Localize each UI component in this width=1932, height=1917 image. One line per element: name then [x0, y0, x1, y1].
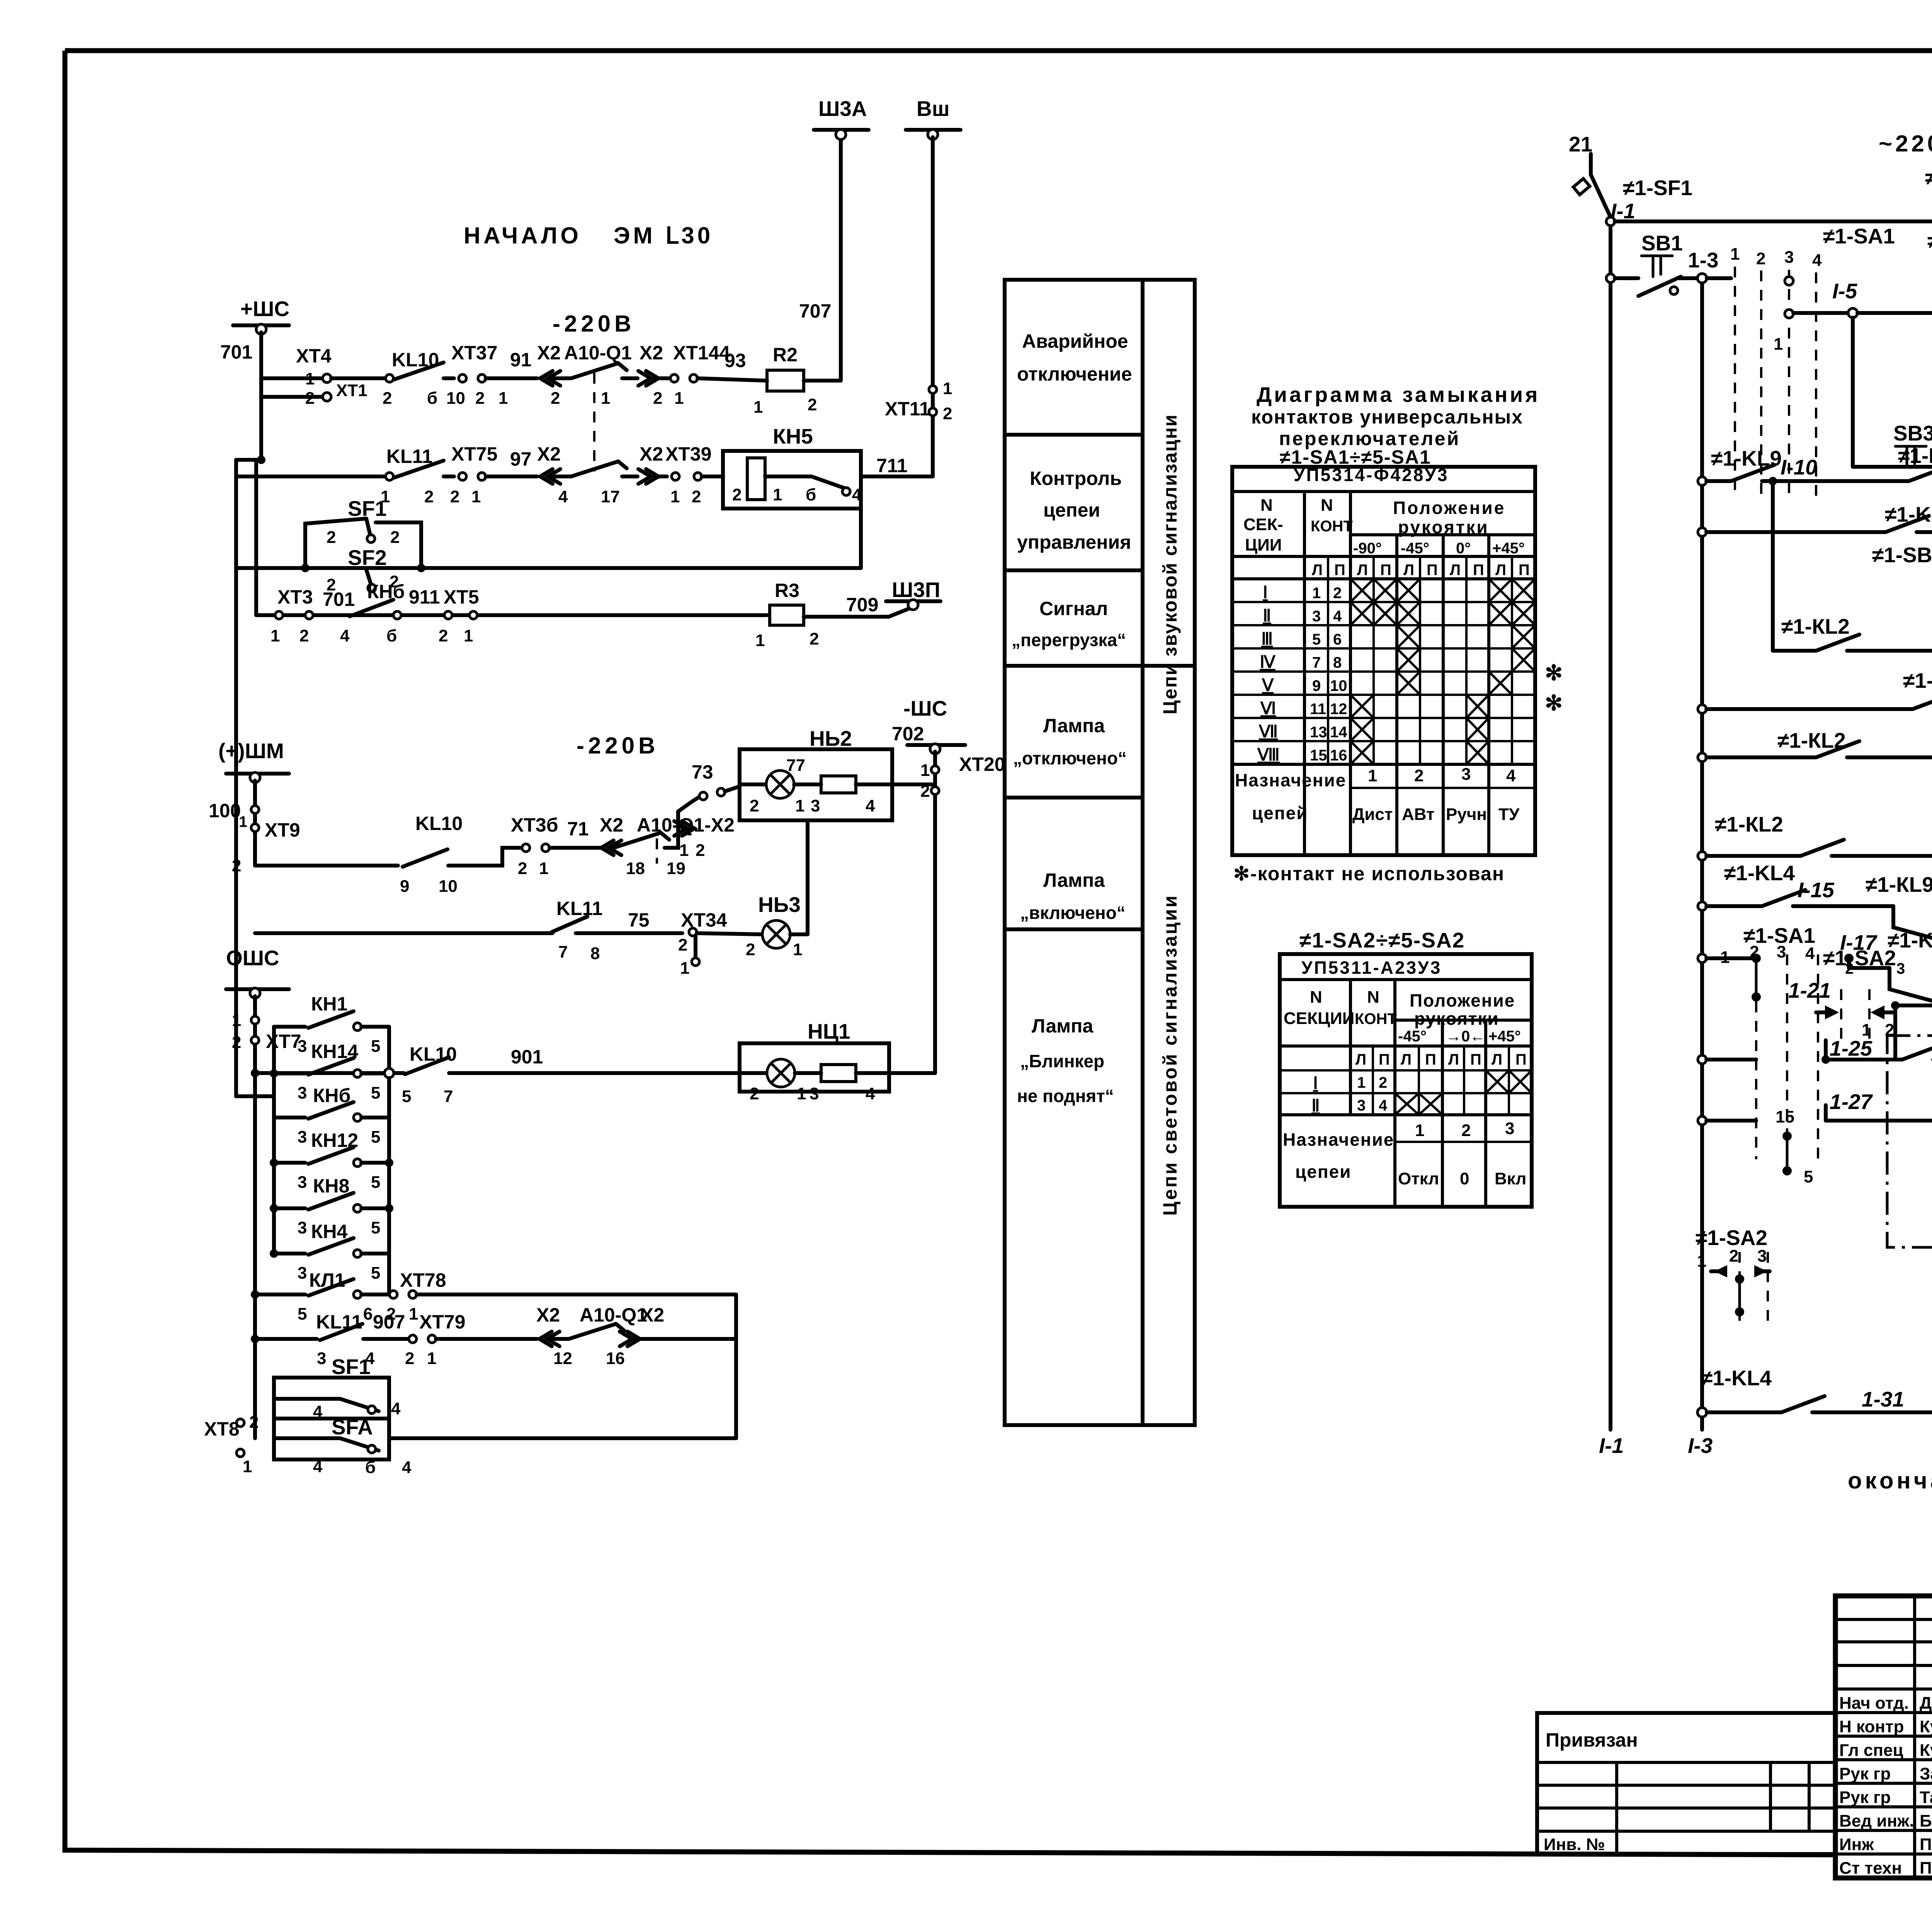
contact ≠1-КЛ4 ≠1-КЛ3 bottom rung — [1697, 1365, 1932, 1417]
svg-text:≠1-КL2: ≠1-КL2 — [1781, 614, 1850, 638]
svg-text:≠1-KL4: ≠1-KL4 — [1701, 1366, 1772, 1390]
svg-text:2: 2 — [232, 856, 241, 875]
contact ≠1-KL2 rung3 — [1698, 728, 1932, 762]
svg-text:21: 21 — [1569, 132, 1592, 156]
svg-text:1: 1 — [670, 487, 680, 506]
svg-text:3: 3 — [1312, 608, 1321, 625]
svg-text:отключение: отключение — [1017, 363, 1132, 385]
svg-text:ЦИИ: ЦИИ — [1245, 536, 1282, 555]
lamp НЬ3 — [746, 893, 808, 959]
contact КН4 — [270, 1221, 389, 1283]
svg-text:2: 2 — [1756, 249, 1765, 268]
svg-text:SB3: SB3 — [1893, 421, 1932, 445]
svg-text:1: 1 — [753, 398, 763, 417]
svg-text:1-25: 1-25 — [1830, 1036, 1872, 1060]
wire rail x663 — [254, 460, 258, 615]
svg-text:3: 3 — [298, 1264, 307, 1283]
svg-text:→0←: →0← — [1446, 1028, 1485, 1045]
svg-text:1: 1 — [239, 813, 247, 830]
svg-text:1: 1 — [680, 959, 689, 978]
legend Лампа Блинкер не поднят — [1017, 1015, 1114, 1106]
table1 row labels — [1257, 583, 1347, 764]
svg-text:ХТ144: ХТ144 — [673, 342, 730, 364]
relay coil ≠1-КЫ1 rung — [1606, 165, 1932, 246]
svg-text:Н контр: Н контр — [1839, 1717, 1904, 1736]
contact ≠1-KL2 I-13 rung — [1698, 812, 1932, 861]
svg-text:1: 1 — [793, 940, 802, 959]
svg-text:5: 5 — [371, 1173, 380, 1192]
svg-text:Ⅴ: Ⅴ — [1262, 676, 1274, 695]
legend Лампа отключено — [1013, 715, 1127, 768]
wire ВШ down — [931, 137, 935, 476]
svg-text:≠1-KL4: ≠1-KL4 — [1903, 668, 1932, 692]
contact КЛ1 row — [251, 1269, 389, 1323]
svg-text:б: б — [386, 626, 397, 645]
svg-text:2: 2 — [405, 1349, 414, 1368]
contact ≠1-KL4 SB4 I-11 YAA2 rung — [1698, 502, 1932, 616]
svg-text:2: 2 — [810, 629, 819, 648]
svg-text:✻-контакт не использован: ✻-контакт не использован — [1233, 863, 1505, 885]
resistor R3 — [755, 580, 889, 650]
svg-text:2: 2 — [678, 936, 687, 954]
svg-text:≠1-SA1: ≠1-SA1 — [1823, 224, 1895, 248]
svg-text:Ⅳ: Ⅳ — [1260, 653, 1276, 672]
node -ШС bus — [892, 696, 965, 754]
svg-text:6: 6 — [1333, 631, 1342, 648]
svg-text:709: 709 — [846, 594, 878, 616]
svg-text:1: 1 — [1415, 1121, 1424, 1140]
svg-text:ОШС: ОШС — [226, 946, 279, 970]
svg-text:б: б — [427, 389, 437, 408]
contact КН6 — [274, 1085, 389, 1146]
svg-text:11: 11 — [1310, 701, 1326, 718]
wire ladder right rail — [387, 1027, 391, 1294]
svg-text:701: 701 — [323, 589, 355, 610]
table1 bottom Назначение — [1235, 765, 1520, 824]
svg-text:Лампа: Лампа — [1032, 1015, 1094, 1037]
pushbutton SB3 rung — [1853, 318, 1932, 471]
table2 headers — [1284, 958, 1527, 1068]
svg-text:≠1-КЫ1: ≠1-КЫ1 — [1925, 165, 1932, 189]
svg-text:2: 2 — [920, 782, 930, 801]
wire ladder left rail — [272, 1027, 276, 1254]
breaker SF2 on main wire — [236, 509, 861, 594]
svg-text:КН8: КН8 — [313, 1175, 349, 1197]
svg-text:15: 15 — [1310, 747, 1327, 764]
connector X2 / A10-Q1-X2 lower — [600, 797, 735, 878]
contact ≠1-KL2 rung2 — [1773, 481, 1932, 651]
svg-text:+45°: +45° — [1488, 1028, 1521, 1045]
svg-text:0°: 0° — [1456, 540, 1471, 557]
svg-text:ХТ3б: ХТ3б — [511, 814, 558, 836]
svg-text:5: 5 — [371, 1128, 380, 1146]
node ОШС bus — [226, 946, 289, 998]
svg-text:УП5311-А23У3: УП5311-А23У3 — [1301, 958, 1442, 978]
contact ≠1-KL9 I-10 rung — [1698, 444, 1932, 485]
svg-text:2: 2 — [518, 859, 527, 878]
contact КН6 row3 — [340, 581, 440, 645]
svg-text:I-5: I-5 — [1832, 279, 1858, 303]
svg-text:„включено“: „включено“ — [1020, 903, 1126, 923]
svg-text:≠1-КL2: ≠1-КL2 — [1715, 812, 1783, 836]
svg-text:X2: X2 — [639, 443, 663, 465]
svg-text:N: N — [1310, 988, 1322, 1007]
svg-text:П: П — [1470, 1051, 1481, 1068]
svg-text:ХТ3: ХТ3 — [277, 586, 313, 608]
svg-text:3: 3 — [1461, 765, 1471, 784]
table2 rows — [1311, 1074, 1388, 1115]
svg-text:3: 3 — [298, 1173, 307, 1192]
contact ≠1-КЛ3 I-17 I-19 rung — [1840, 925, 1932, 1005]
svg-text:рукоятки: рукоятки — [1398, 517, 1489, 537]
svg-text:≠1-SF1: ≠1-SF1 — [1623, 176, 1692, 200]
svg-text:не поднят“: не поднят“ — [1017, 1086, 1114, 1106]
svg-text:5: 5 — [371, 1218, 380, 1237]
svg-text:2: 2 — [732, 485, 742, 504]
svg-text:X2: X2 — [537, 342, 561, 364]
svg-text:I-1: I-1 — [1599, 1434, 1624, 1458]
svg-text:Долотов: Долотов — [1920, 1694, 1932, 1713]
svg-text:Ручн: Ручн — [1446, 805, 1487, 824]
svg-text:окончание , ЭМ Ⅼ32: окончание , ЭМ Ⅼ32 — [1848, 1468, 1932, 1493]
terminal XT37 — [446, 342, 537, 408]
svg-text:+45°: +45° — [1492, 540, 1525, 557]
svg-text:10: 10 — [446, 389, 465, 408]
svg-text:707: 707 — [799, 300, 831, 322]
switch ≠1-SA1 lower block — [1698, 924, 1854, 1186]
svg-text:2: 2 — [750, 796, 759, 815]
svg-text:ХТ5: ХТ5 — [444, 586, 479, 608]
svg-text:7: 7 — [558, 942, 568, 961]
node (+)ШМ bus — [218, 739, 289, 782]
svg-text:Гл спец: Гл спец — [1839, 1741, 1903, 1760]
svg-text:3: 3 — [1777, 942, 1786, 961]
svg-text:НАЧАЛО: НАЧАЛО — [464, 223, 582, 248]
svg-text:Ⅼ30: Ⅼ30 — [665, 223, 713, 248]
svg-text:1: 1 — [755, 631, 765, 650]
breaker SF1 lower — [274, 1355, 401, 1421]
terminal XT79 — [405, 1311, 537, 1368]
svg-text:СЕКЦИИ: СЕКЦИИ — [1284, 1009, 1354, 1028]
svg-text:2: 2 — [439, 626, 448, 645]
table1 cross marks — [1350, 579, 1535, 764]
svg-text:I-3: I-3 — [1688, 1434, 1713, 1458]
svg-text:2: 2 — [1461, 1121, 1471, 1140]
rung 1-27 — [1698, 973, 1932, 1125]
svg-text:Привязан: Привязан — [1546, 1729, 1638, 1751]
svg-text:2: 2 — [1845, 960, 1854, 977]
svg-text:Л: Л — [1355, 1051, 1366, 1068]
terminal XT144 — [670, 342, 767, 382]
svg-text:907: 907 — [373, 1311, 405, 1333]
wire 901 — [384, 1046, 740, 1078]
svg-text:2: 2 — [327, 528, 336, 547]
svg-text:П: П — [1425, 1051, 1436, 1068]
svg-text:X2: X2 — [639, 342, 663, 364]
svg-text:УП5314-Ф428У3: УП5314-Ф428У3 — [1294, 465, 1449, 485]
svg-text:1: 1 — [679, 841, 689, 860]
svg-text:2: 2 — [424, 487, 434, 506]
svg-text:18: 18 — [626, 859, 645, 878]
svg-text:управления: управления — [1017, 531, 1131, 553]
svg-text:КНб: КНб — [313, 1085, 351, 1106]
table1 headers — [1243, 465, 1530, 578]
svg-text:Л: Л — [1492, 1051, 1502, 1068]
svg-text:4: 4 — [402, 1458, 412, 1477]
contact KL10 row1 — [383, 349, 454, 408]
svg-text:ХТ8: ХТ8 — [204, 1418, 240, 1440]
table2 УП5311-А23УЗ grid — [1280, 954, 1532, 1207]
svg-text:ХТ79: ХТ79 — [419, 1311, 466, 1333]
svg-text:≠1-SA2÷≠5-SA2: ≠1-SA2÷≠5-SA2 — [1299, 928, 1465, 952]
svg-text:2: 2 — [653, 389, 662, 408]
svg-text:-ШС: -ШС — [903, 696, 947, 720]
node ШЗА bus — [799, 97, 869, 322]
svg-text:91: 91 — [510, 349, 532, 371]
wire row KL11 75 — [255, 931, 553, 935]
svg-text:Сигнал: Сигнал — [1039, 598, 1108, 619]
svg-text:Польская: Польская — [1920, 1835, 1932, 1854]
svg-text:1: 1 — [674, 389, 684, 408]
svg-text:5: 5 — [371, 1037, 380, 1056]
node +ШС bus — [220, 297, 289, 363]
contact KL10 row ШМ — [400, 813, 464, 896]
svg-text:КН4: КН4 — [311, 1221, 348, 1242]
svg-text:Цепи световой сигнализации: Цепи световой сигнализации — [1159, 894, 1181, 1216]
svg-text:17: 17 — [601, 487, 620, 506]
svg-text:2: 2 — [750, 1084, 759, 1103]
wire bus I-3 — [1700, 278, 1704, 1430]
svg-text:Л: Л — [1401, 1051, 1412, 1068]
contacts inside TU box rung 1-25 — [1698, 1036, 1932, 1198]
svg-text:6: 6 — [363, 1305, 372, 1323]
svg-text:100: 100 — [209, 800, 241, 822]
svg-text:Полякова: Полякова — [1920, 1859, 1932, 1878]
svg-text:SF1: SF1 — [332, 1355, 371, 1379]
terminal XT5 — [439, 586, 479, 645]
table1 УП5314-Ф428УЗ grid — [1232, 467, 1535, 855]
svg-text:5: 5 — [1804, 1167, 1813, 1186]
svg-text:1-31: 1-31 — [1862, 1387, 1904, 1411]
svg-text:+ШС: +ШС — [240, 297, 289, 321]
svg-text:7: 7 — [444, 1087, 453, 1106]
svg-text:ХТ37: ХТ37 — [451, 342, 498, 364]
svg-text:16: 16 — [606, 1349, 625, 1368]
svg-text:Завьялова: Завьялова — [1920, 1764, 1932, 1783]
svg-text:Лампа: Лампа — [1043, 869, 1105, 891]
table2 crosses — [1395, 1070, 1532, 1115]
terminal XT75 — [450, 443, 537, 506]
svg-text:1-27: 1-27 — [1830, 1090, 1873, 1114]
svg-text:Кудряшов: Кудряшов — [1920, 1741, 1932, 1760]
svg-text:4: 4 — [1812, 251, 1822, 270]
terminal XT7 — [232, 1011, 301, 1052]
wire row2 — [236, 475, 386, 478]
svg-text:П: П — [1515, 1051, 1527, 1068]
svg-text:9: 9 — [1312, 677, 1321, 694]
svg-text:~220В: ~220В — [1879, 131, 1932, 156]
svg-text:КНб: КНб — [367, 581, 405, 602]
svg-text:Дист: Дист — [1352, 805, 1393, 824]
svg-text:ХТ75: ХТ75 — [451, 443, 498, 465]
svg-text:Рук гр: Рук гр — [1839, 1764, 1891, 1783]
svg-text:≠1-KL4: ≠1-KL4 — [1724, 861, 1795, 885]
svg-text:16: 16 — [1330, 747, 1347, 764]
svg-text:2: 2 — [1333, 585, 1342, 602]
wire row3 — [256, 613, 767, 617]
svg-text:1: 1 — [243, 1457, 252, 1476]
svg-text:2: 2 — [1379, 1074, 1387, 1091]
svg-text:✻: ✻ — [1545, 691, 1563, 715]
wire row KL11 907 — [251, 1335, 317, 1343]
svg-text:1: 1 — [601, 389, 610, 408]
svg-text:Диаграмма замыкания: Диаграмма замыкания — [1257, 383, 1540, 407]
svg-text:≠1-SB4: ≠1-SB4 — [1872, 543, 1932, 567]
svg-text:СЕК-: СЕК- — [1243, 515, 1283, 534]
svg-text:2: 2 — [808, 395, 817, 414]
svg-text:контактов универсальных: контактов универсальных — [1251, 406, 1523, 428]
svg-text:1: 1 — [795, 796, 804, 815]
svg-text:1: 1 — [539, 859, 548, 878]
svg-text:НЬ3: НЬ3 — [758, 893, 801, 917]
annex box Привязан — [1537, 1713, 1835, 1854]
table1 title Диаграмма замыкания — [1251, 383, 1540, 468]
svg-text:1: 1 — [1368, 766, 1377, 785]
svg-text:П: П — [1379, 1051, 1390, 1068]
legend Лампа включено — [1020, 869, 1126, 923]
svg-text:П: П — [1427, 561, 1438, 578]
svg-text:R2: R2 — [773, 344, 798, 366]
svg-text:≠1: ≠1 — [1823, 946, 1847, 970]
svg-text:3: 3 — [1757, 1247, 1767, 1266]
svg-text:цепеи: цепеи — [1043, 499, 1100, 521]
wire row ШМ — [255, 864, 398, 867]
switch ≠1-SA2 lower — [1696, 1226, 1770, 1325]
connector X2 chevron row1 right — [638, 342, 684, 408]
svg-text:Ⅰ: Ⅰ — [1263, 583, 1268, 602]
svg-text:Ⅶ: Ⅶ — [1259, 722, 1278, 741]
svg-text:Ⅷ: Ⅷ — [1257, 745, 1280, 764]
svg-text:-45°: -45° — [1401, 540, 1429, 557]
svg-text:2: 2 — [943, 404, 952, 423]
svg-text:3: 3 — [1784, 248, 1794, 267]
svg-text:цепей: цепей — [1252, 803, 1308, 823]
wire from +ШС down — [259, 332, 263, 460]
legend Контроль цепей управления — [1017, 468, 1131, 553]
svg-text:3: 3 — [1357, 1097, 1366, 1114]
svg-text:Аварийное: Аварийное — [1022, 330, 1128, 352]
svg-text:1: 1 — [1357, 1074, 1366, 1091]
svg-text:1: 1 — [1312, 585, 1321, 602]
wire jog to XT36 — [464, 848, 521, 866]
svg-text:N: N — [1321, 496, 1333, 515]
svg-text:-90°: -90° — [1353, 540, 1382, 557]
terminal XT78 — [386, 1269, 736, 1323]
svg-text:KL11: KL11 — [556, 898, 603, 919]
svg-text:4: 4 — [313, 1457, 323, 1476]
svg-text:Ⅱ: Ⅱ — [1311, 1096, 1320, 1115]
contact KL10 5-7 on 901 row — [251, 1043, 457, 1106]
svg-text:цепеи: цепеи — [1295, 1162, 1352, 1182]
svg-text:2: 2 — [551, 389, 560, 408]
svg-text:Контроль: Контроль — [1030, 468, 1122, 489]
svg-text:1: 1 — [1774, 335, 1783, 354]
svg-text:1-21: 1-21 — [1788, 978, 1831, 1002]
svg-text:97: 97 — [510, 448, 532, 470]
svg-text:5: 5 — [402, 1087, 411, 1106]
svg-text:ХТ4: ХТ4 — [296, 345, 332, 367]
svg-text:3: 3 — [810, 1084, 819, 1103]
svg-text:НЦ1: НЦ1 — [808, 1019, 850, 1043]
svg-text:X2: X2 — [536, 1304, 560, 1326]
svg-text:3: 3 — [1505, 1119, 1514, 1138]
svg-text:A10-Q1: A10-Q1 — [580, 1304, 647, 1326]
svg-text:1: 1 — [1697, 1252, 1706, 1271]
contact КН1 — [274, 993, 389, 1056]
node ШЗП bus — [886, 578, 940, 617]
contact KL11 3-4 — [316, 1311, 408, 1368]
terminal XT3 — [270, 586, 355, 645]
svg-text:1: 1 — [270, 626, 280, 645]
svg-text:7: 7 — [1312, 654, 1321, 671]
svg-text:1: 1 — [427, 1349, 436, 1368]
svg-text:ТУ: ТУ — [1498, 805, 1520, 824]
svg-text:Инж: Инж — [1839, 1835, 1874, 1854]
switch ≠1-SA2 upper — [1788, 946, 1932, 1057]
wire ОШС rail — [253, 996, 257, 1438]
svg-text:Л: Л — [1448, 1051, 1459, 1068]
svg-text:≠1-А3: ≠1-А3 — [1927, 229, 1932, 253]
svg-text:≠1-КL9: ≠1-КL9 — [1866, 873, 1932, 896]
terminal XT34 — [678, 909, 763, 978]
svg-text:Положение: Положение — [1410, 990, 1515, 1010]
svg-text:КН1: КН1 — [311, 993, 347, 1015]
svg-text:1: 1 — [409, 1305, 418, 1323]
svg-text:Барбашинов: Барбашинов — [1920, 1812, 1932, 1830]
svg-text:12: 12 — [1330, 701, 1347, 718]
switch ≠1-SA1 dashed poles — [1730, 224, 1895, 498]
svg-text:ХТ78: ХТ78 — [400, 1269, 446, 1291]
svg-text:2: 2 — [1729, 1247, 1738, 1266]
svg-text:-220В: -220В — [553, 311, 635, 337]
relay box КН5 — [723, 424, 933, 509]
svg-text:4: 4 — [1379, 1097, 1388, 1114]
svg-text:73: 73 — [692, 761, 713, 783]
lamp box НЦ1 — [740, 1019, 935, 1103]
contact КН8 — [270, 1175, 393, 1237]
svg-text:3: 3 — [298, 1128, 307, 1146]
node junction bridge — [236, 456, 265, 464]
contact KL11 7-8 — [552, 898, 682, 963]
breaker SF1 bypass branch — [305, 497, 421, 568]
svg-text:1: 1 — [232, 1011, 241, 1030]
svg-text:Цепи звуковой сигнализацни: Цепи звуковой сигнализацни — [1159, 414, 1181, 714]
svg-text:Рук гр: Рук гр — [1839, 1788, 1891, 1807]
svg-text:4: 4 — [340, 626, 350, 645]
terminal XT1/XT4 — [261, 345, 386, 408]
svg-text:3: 3 — [298, 1037, 307, 1056]
svg-text:Кудряшов: Кудряшов — [1920, 1717, 1932, 1736]
svg-text:4: 4 — [1805, 944, 1815, 963]
svg-text:Л: Л — [1495, 561, 1506, 578]
svg-text:НЬ2: НЬ2 — [810, 726, 852, 750]
svg-text:Л: Л — [1450, 561, 1461, 578]
terminal XT39 — [665, 443, 723, 506]
svg-text:ЭМ: ЭМ — [614, 223, 656, 248]
svg-text:Л: Л — [1403, 561, 1414, 578]
svg-text:КН5: КН5 — [773, 424, 813, 448]
svg-text:N: N — [1260, 496, 1273, 515]
